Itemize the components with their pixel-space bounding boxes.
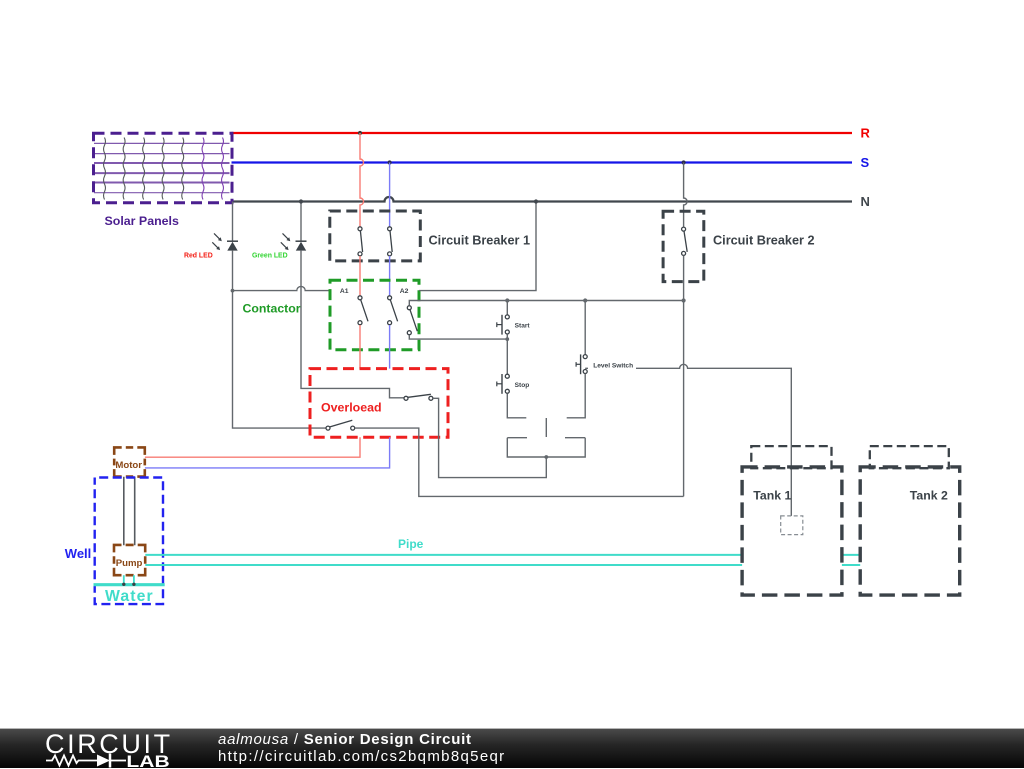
wire: CB2 down to overload return [683,256,685,497]
contactor coil K1 (plates symbol) [507,418,585,457]
wire: blue phase drop to CB1 [389,163,391,227]
bus N (neutral line, hop over blue wire at x=389) [232,197,853,202]
motor box M1 [114,447,145,476]
node: junction S bus / CB2 drop [682,160,686,164]
node: junction red LED / A1 wire [231,289,235,293]
switch OL1-bottom contact [326,420,355,430]
wire: motor shaft links to pump [124,477,135,546]
wire: S phase drop to CB2 (hop over N) [684,163,688,227]
footer url [218,748,506,765]
switch CB1-b (blue pole) [388,227,393,256]
overload box OL1 [310,369,448,438]
switch K1-b (blue pole) [388,296,398,325]
pushbutton SW-Start [497,315,510,335]
svg-text:Pipe: Pipe [398,537,424,551]
svg-text:Circuit Breaker 2: Circuit Breaker 2 [713,234,815,248]
switch K1-aux (auxiliary contact) [407,306,417,335]
bus S (blue phase line) [232,161,853,163]
footer title [218,731,472,748]
photodiode D2 Green LED [281,233,307,250]
svg-text:Contactor: Contactor [243,302,301,316]
node: junction rail / S-phase drop [682,298,686,302]
svg-text:Overloead: Overloead [321,401,382,415]
svg-text:A1: A1 [340,288,349,295]
wire: rail to level switch [584,301,586,355]
svg-text:Pump: Pump [116,558,143,569]
node: junction N / A2 wire [534,199,538,203]
svg-text:Stop: Stop [515,382,530,389]
node: junction rail / level switch [583,298,587,302]
wire: aux contact bottom to start button junction [409,335,507,339]
pushbutton SW-Level [576,354,587,374]
contactor box K1 [330,280,419,349]
tank 2 box [860,467,960,595]
bus R (red phase line) [232,132,853,134]
wire: N to Red LED anode [232,202,234,242]
svg-text:Circuit Breaker 1: Circuit Breaker 1 [429,234,531,248]
svg-text:Well: Well [65,546,92,561]
pump box P1 [114,545,145,575]
svg-text:Solar Panels: Solar Panels [105,214,179,228]
node: suction dots on water line [122,583,125,586]
solar panel array PV1 (grid of cells) [94,133,233,203]
circuit breaker 2 box [663,211,704,281]
svg-text:Green LED: Green LED [252,253,288,260]
svg-text:A2: A2 [400,288,409,295]
wire: Red LED cathode down to junction and overload lower switch [233,251,326,429]
svg-text:Level Switch: Level Switch [593,362,633,369]
tank 2 lid [870,446,949,468]
node: junction coil bottom [544,455,548,459]
float sensor box in tank 1 [781,516,803,535]
wire: blue CB1 to contactor [389,256,391,296]
svg-text:N: N [861,194,870,209]
tank 1 box [742,467,842,595]
svg-text:R: R [861,126,871,141]
svg-text:Water: Water [105,588,154,605]
wire: rail to start button [506,301,508,315]
wire: blue contactor to overload [389,325,391,369]
wire: red CB1 to contactor [359,256,361,296]
wire: Green LED cathode to overload top switch [301,251,404,398]
node: junction S bus / blue drop [388,160,392,164]
svg-text:LAB: LAB [126,753,169,769]
wire: red contactor to overload [359,325,361,369]
pipe lower run pump to tank1 [145,564,742,566]
switch OL1-top (NC contact) [404,394,433,400]
well box [95,478,163,605]
pipe stubs tank1 to tank2 [842,555,860,565]
wire: aux contact top to control rail [409,301,683,306]
svg-text:S: S [861,155,870,170]
pushbutton SW-Stop [497,374,510,394]
svg-text:Tank 2: Tank 2 [910,489,948,503]
node: junction N / green LED [299,199,303,203]
wire: red phase drop through CB1 (hops over S and N) [360,133,364,227]
wire: A2 coil wire from N [419,202,536,291]
switch K1-a (red pole) [358,296,368,325]
footer bar [0,728,1024,768]
svg-text:Red LED: Red LED [184,253,213,260]
wire: stop to coil left plate [507,394,526,418]
wire: level switch to tank1 float (hop over S-drop) [585,364,791,516]
wire: blue overload out to motor [145,437,390,468]
svg-text:Motor: Motor [115,460,142,471]
wire: N to Green LED anode [300,202,302,242]
wire: overload top switch out to coil bottom [433,398,546,477]
tank 1 lid [751,446,831,468]
CircuitLab logo [40,729,240,769]
wire: A1 coil wire (hop over green LED wire) [233,286,331,290]
svg-text:Start: Start [515,323,531,330]
node: junction R bus / red drop [358,131,362,135]
node: junction rail / start [505,298,509,302]
pump suction stubs [124,575,134,584]
pipe upper run pump to tank1 [145,554,742,556]
photodiode D1 Red LED [212,233,238,250]
water line in well [94,583,165,586]
label Level Switch [588,360,636,370]
circuit breaker 1 box [330,211,421,261]
wire: level switch to coil right plate [567,374,586,418]
wire: red overload out to motor [145,437,360,457]
wire: start to stop [506,334,508,374]
switch CB1-a (red pole) [358,227,363,256]
svg-text:Tank 1: Tank 1 [753,489,791,503]
wire: overload bottom switch out to S-phase drop [355,428,684,496]
switch CB2 [682,227,688,255]
node: junction start/aux-bottom [505,337,509,341]
